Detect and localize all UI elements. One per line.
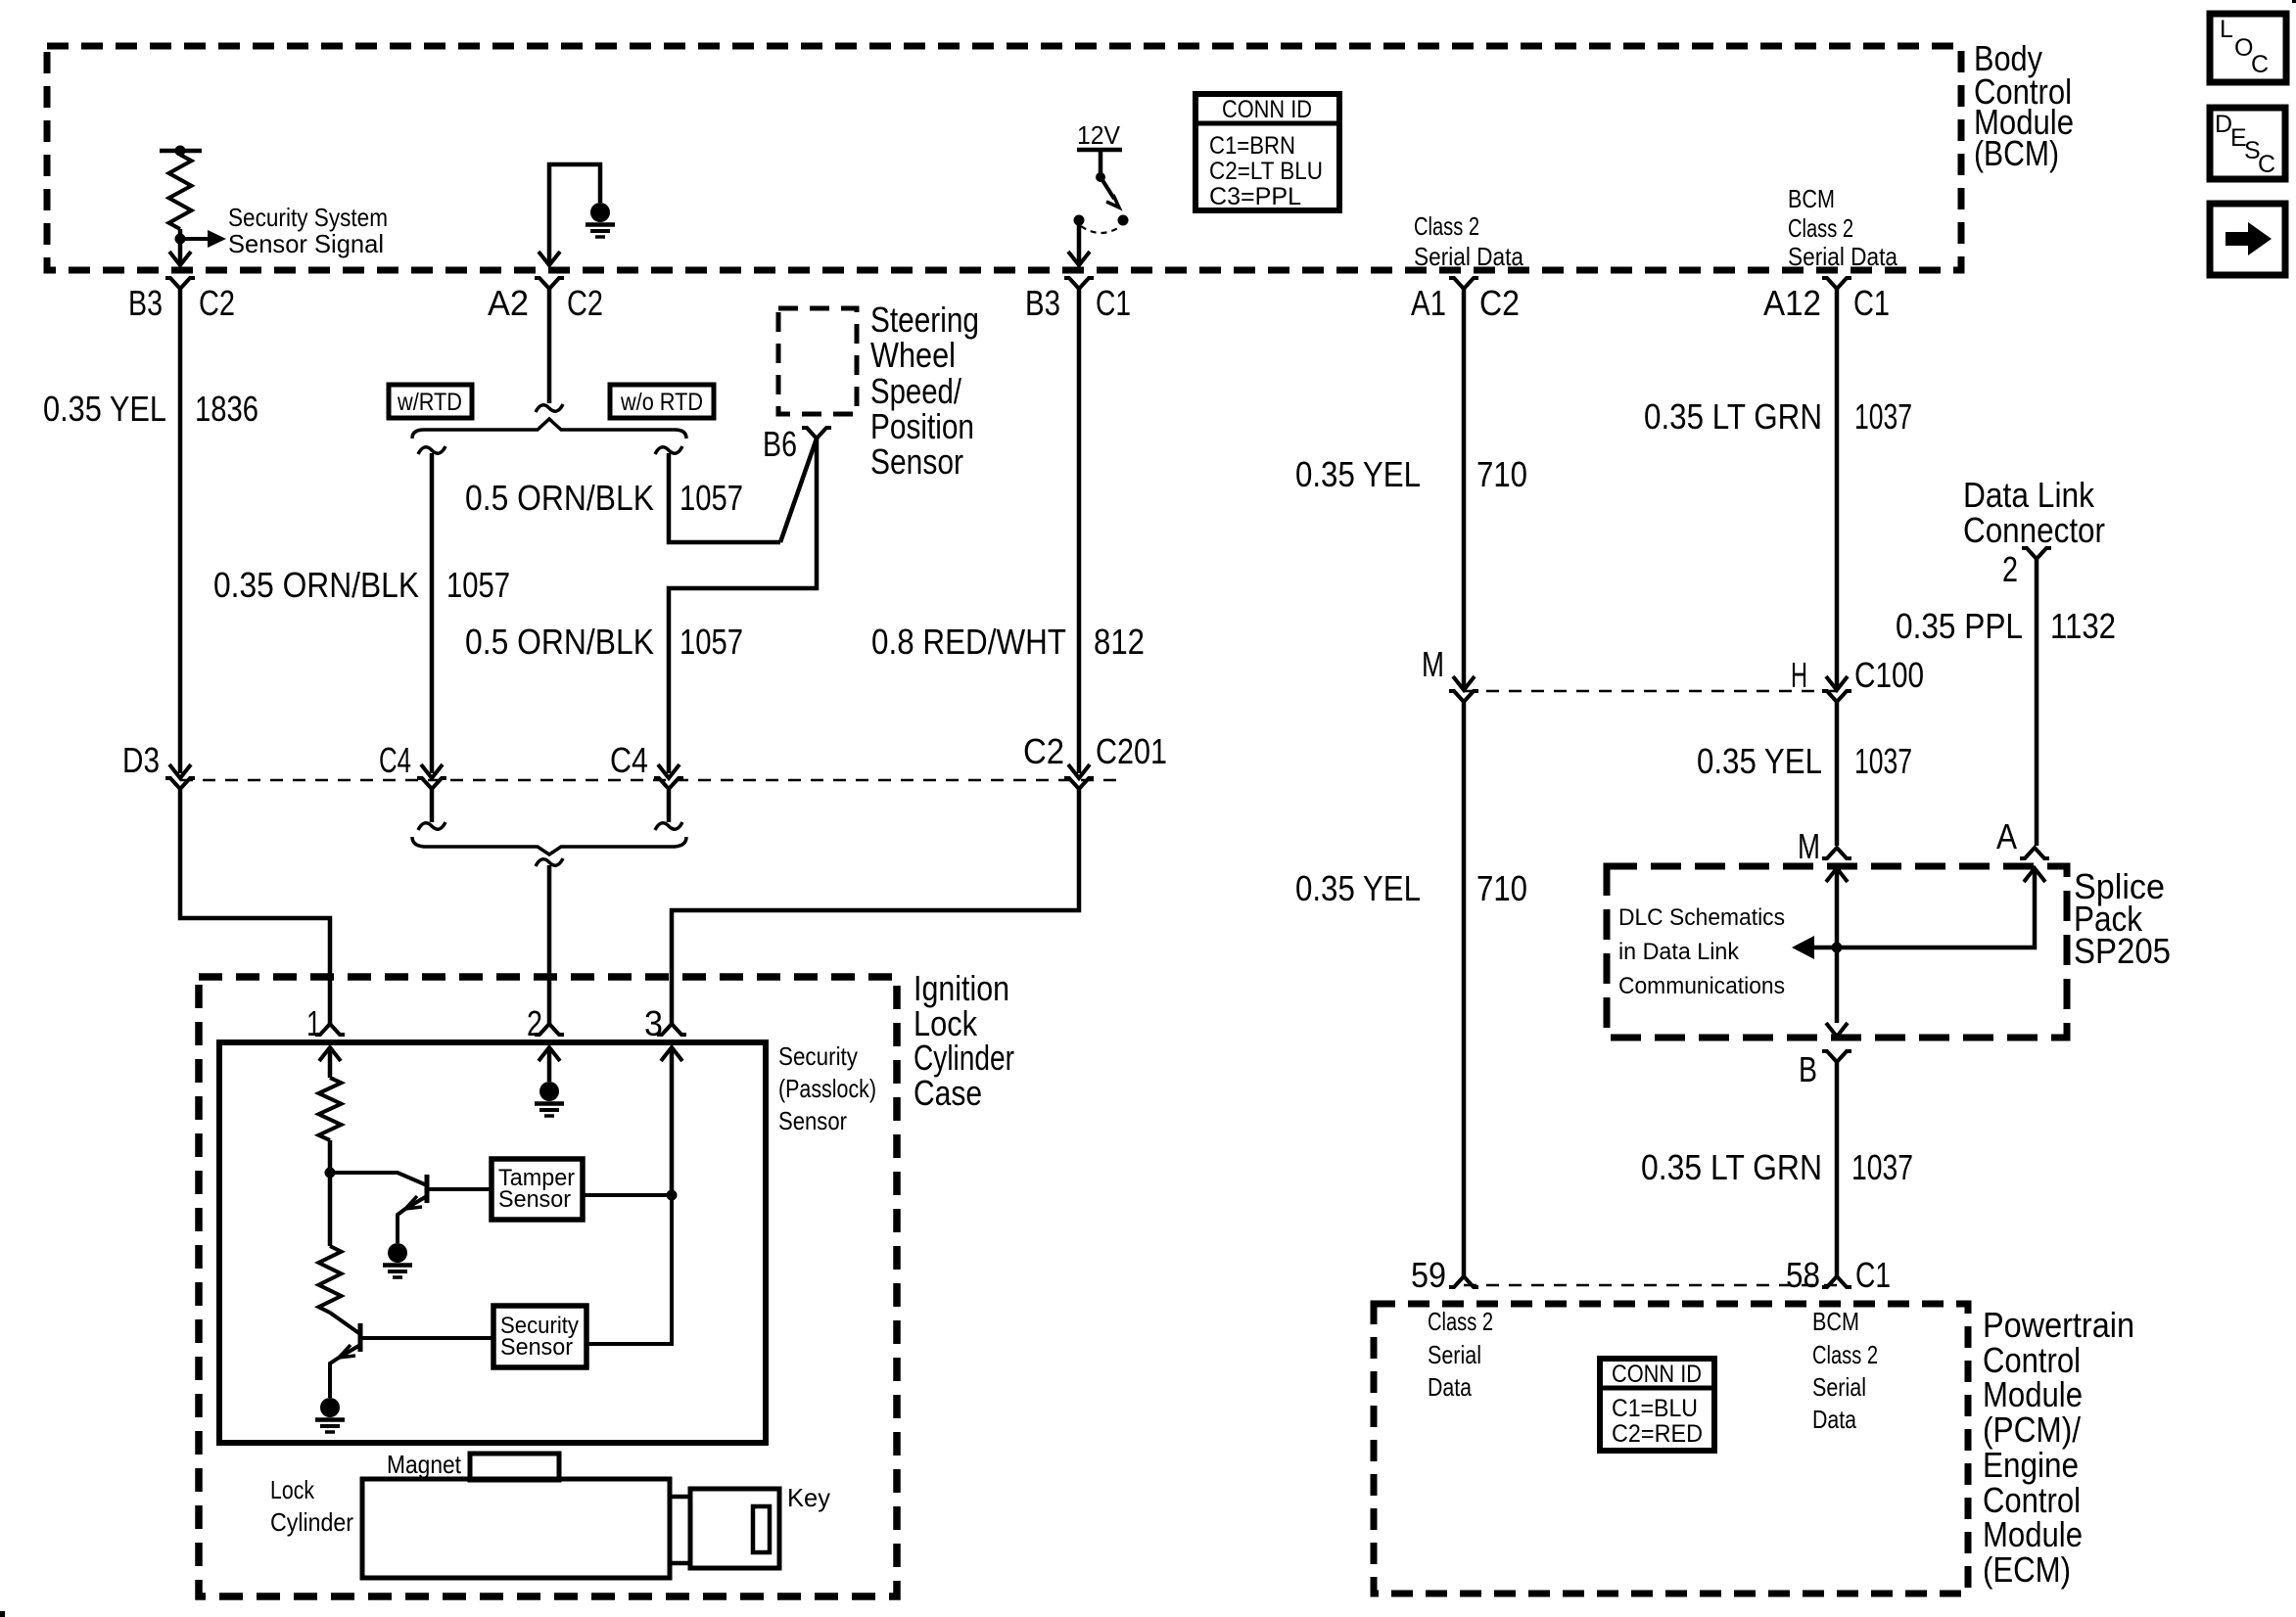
svg-text:Class 2: Class 2 (1788, 213, 1853, 243)
svg-text:L: L (2220, 16, 2233, 43)
label 0.35 YEL 710 lower (1295, 868, 1527, 908)
svg-text:Sensor: Sensor (778, 1106, 847, 1135)
label 0.35 YEL 710 upper (1295, 454, 1527, 494)
svg-text:BCM: BCM (1788, 184, 1835, 213)
label Powertrain Control Module (PCM)/Engine Control Module (ECM) (1983, 1305, 2134, 1590)
ground G-Q2 (320, 1398, 340, 1417)
svg-text:M: M (1422, 644, 1444, 684)
svg-text:A: A (1996, 816, 2017, 856)
label Lock Cylinder (270, 1475, 353, 1537)
wire tamper sensor to pin 3 (583, 1193, 672, 1197)
connector B3/C2 female (165, 278, 195, 289)
resistor R-BCM (security sensor signal pull-up) (160, 146, 202, 240)
node security sensor signal tap (175, 230, 227, 248)
table CONN ID (PCM connectors) (1600, 1359, 1714, 1451)
connector A2/C2 female (535, 278, 564, 289)
corner registration mark top-right (2292, 0, 2296, 3)
svg-text:0.35 PPL: 0.35 PPL (1896, 606, 2023, 646)
svg-text:0.35 YEL: 0.35 YEL (1295, 454, 1421, 494)
svg-text:Security: Security (778, 1041, 858, 1071)
label 58 | C1 (1786, 1255, 1891, 1295)
option box w/o RTD (610, 385, 714, 418)
svg-text:M: M (1798, 826, 1820, 866)
svg-text:in Data Link: in Data Link (1618, 939, 1740, 965)
ground G-BCM (590, 203, 610, 222)
svg-text:1057: 1057 (446, 565, 510, 605)
connector DLC pin 2 female (2022, 548, 2051, 559)
connector A splice female (2020, 848, 2049, 858)
svg-text:Serial: Serial (1428, 1340, 1481, 1369)
Body Control Module (BCM) dashed outline (47, 46, 1961, 270)
label BCM Class 2 Serial Data (A12) (1788, 184, 1898, 271)
wire A2 upper segment (547, 289, 552, 403)
svg-text:Engine: Engine (1983, 1445, 2079, 1485)
corner registration mark bottom-left (0, 1611, 5, 1617)
connector M splice female (1822, 848, 1851, 858)
svg-text:1037: 1037 (1854, 396, 1912, 437)
svg-text:C3=PPL: C3=PPL (1209, 183, 1301, 210)
svg-text:Speed/: Speed/ (870, 371, 961, 411)
label Steering Wheel Speed/Position Sensor (870, 300, 979, 482)
svg-text:D3: D3 (122, 740, 160, 780)
resistor R2 (319, 1246, 342, 1313)
wire 0.35 PPL 1132 (2035, 559, 2039, 846)
svg-text:C100: C100 (1854, 655, 1924, 695)
Ignition Lock Cylinder Case dashed outline (199, 977, 897, 1596)
wire A into splice (1792, 868, 2045, 959)
label 0.35 ORN/BLK 1057 (213, 565, 510, 605)
svg-text:Case: Case (914, 1073, 982, 1113)
svg-text:(Passlock): (Passlock) (778, 1074, 876, 1103)
wire pin 3 to security sensor (586, 1195, 672, 1344)
svg-text:Magnet: Magnet (387, 1450, 462, 1479)
brace split (A2 into w/RTD and w/o RTD) (412, 419, 686, 439)
svg-text:H: H (1791, 655, 1807, 695)
label Class 2 Serial Data (pin 59) (1428, 1307, 1493, 1402)
wire break w/o RTD branch top (655, 446, 682, 454)
svg-text:2: 2 (527, 1003, 542, 1043)
pin 3 arrow into sensor (661, 1047, 682, 1195)
svg-text:710: 710 (1476, 454, 1527, 494)
svg-text:Data: Data (1428, 1372, 1472, 1402)
table CONN ID (BCM connectors) (1195, 94, 1339, 210)
pin 3 connector female (657, 1024, 686, 1035)
connector line C100 (dashed) (1464, 690, 1837, 693)
Security (Passlock) Sensor box outline (219, 1042, 766, 1443)
transistor Q1 (tamper) (330, 1173, 492, 1243)
ground G-Q1 (388, 1243, 407, 1263)
legend box LOC (2210, 14, 2286, 82)
svg-text:C2: C2 (1479, 283, 1520, 323)
legend box forward arrow (2210, 204, 2285, 275)
switch SW-ignition (inside BCM) (1074, 150, 1129, 233)
svg-text:Module: Module (1983, 1374, 2083, 1414)
svg-text:Class 2: Class 2 (1812, 1340, 1878, 1369)
svg-text:Class 2: Class 2 (1428, 1307, 1493, 1336)
connector line C201/C4 (dashed) (180, 779, 1116, 782)
wire break above pin 2 (536, 858, 563, 866)
svg-text:3: 3 (644, 1003, 663, 1043)
svg-text:C2: C2 (1023, 731, 1064, 771)
svg-text:w/o RTD: w/o RTD (620, 389, 703, 416)
svg-text:Module: Module (1983, 1514, 2083, 1554)
svg-text:B: B (1799, 1049, 1817, 1089)
svg-text:C2=LT BLU: C2=LT BLU (1209, 158, 1323, 185)
svg-text:1132: 1132 (2050, 606, 2116, 646)
resistor R1 (319, 1078, 342, 1140)
label 0.35 PPL 1132 (1896, 606, 2116, 646)
connector D3 female (165, 778, 195, 789)
svg-text:0.35 ORN/BLK: 0.35 ORN/BLK (213, 565, 419, 605)
wire from B6 down (w/o RTD) (669, 439, 817, 773)
svg-text:710: 710 (1476, 868, 1527, 908)
wire to pin 2 (547, 865, 552, 1024)
wire break w/o RTD branch bottom (655, 822, 682, 830)
connector B3/C1 female (1064, 278, 1094, 289)
label 0.35 YEL 1037 (1697, 741, 1912, 781)
connector M/C100-left male (1453, 676, 1475, 690)
connector D3 male (169, 764, 191, 778)
label 0.35 LT GRN 1037 upper (1644, 396, 1912, 437)
pin 2 arrow into sensor (539, 1047, 560, 1082)
wire 0.35 YEL 710 upper (1462, 289, 1467, 687)
svg-text:Security System: Security System (228, 203, 388, 232)
svg-text:812: 812 (1094, 622, 1145, 662)
box Tamper Sensor (492, 1159, 583, 1220)
svg-text:Sensor: Sensor (500, 1334, 573, 1361)
svg-text:C1: C1 (1855, 1255, 1891, 1295)
connector C2/C201 female (1064, 778, 1094, 789)
svg-text:12V: 12V (1077, 120, 1121, 150)
wire R1 to node (328, 1140, 333, 1173)
label B3 | C2 pins (128, 283, 235, 323)
wire M through splice (1826, 868, 1848, 1037)
svg-text:Connector: Connector (1963, 510, 2105, 550)
svg-text:0.35 LT GRN: 0.35 LT GRN (1644, 396, 1822, 437)
wire 0.35 LT GRN 1037 lower (1835, 1062, 1840, 1276)
svg-text:B6: B6 (763, 424, 797, 464)
svg-text:Key: Key (787, 1483, 830, 1512)
connector C4 female (w/RTD) (417, 778, 446, 789)
connector C4 male (w/o RTD) (658, 764, 679, 778)
svg-text:Sensor: Sensor (498, 1186, 571, 1213)
svg-text:C1: C1 (1096, 283, 1131, 323)
svg-text:Sensor: Sensor (870, 441, 963, 482)
label Splice Pack SP205 (2074, 866, 2171, 971)
connector H female (1822, 691, 1851, 702)
label 0.8 RED/WHT 812 (871, 622, 1145, 662)
label A1 | C2 pins (1411, 283, 1520, 323)
svg-text:Cylinder: Cylinder (914, 1038, 1014, 1078)
svg-text:58: 58 (1786, 1255, 1820, 1295)
svg-text:Ignition: Ignition (914, 968, 1009, 1008)
Powertrain Control Module dashed outline (1374, 1304, 1968, 1594)
svg-text:Cylinder: Cylinder (270, 1507, 353, 1537)
pin 2 connector female (535, 1024, 564, 1035)
svg-text:Position: Position (870, 406, 974, 446)
svg-text:0.35 YEL: 0.35 YEL (1697, 741, 1822, 781)
svg-text:0.5 ORN/BLK: 0.5 ORN/BLK (465, 622, 654, 662)
label A2 | C2 pins (488, 283, 603, 323)
svg-text:C201: C201 (1096, 731, 1167, 771)
svg-text:Sensor Signal: Sensor Signal (228, 229, 384, 258)
wire 0.35 LT GRN 1037 upper (1835, 289, 1840, 687)
svg-text:0.5 ORN/BLK: 0.5 ORN/BLK (465, 478, 654, 518)
box magnet (470, 1454, 559, 1480)
label B3 | C1 pins (1025, 283, 1131, 323)
node tamper output junction (667, 1190, 678, 1201)
svg-text:Lock: Lock (270, 1475, 315, 1504)
connector B6 female (802, 428, 831, 439)
svg-text:Wheel: Wheel (870, 335, 956, 375)
svg-text:B3: B3 (128, 283, 163, 323)
wire 0.8 RED/WHT 812 segment (1077, 289, 1082, 773)
node splice junction SP205 (1832, 943, 1843, 953)
svg-text:C2: C2 (199, 283, 235, 323)
connector C4 female (w/o RTD) (654, 778, 683, 789)
svg-text:Data: Data (1812, 1405, 1856, 1434)
svg-text:C1: C1 (1853, 283, 1890, 323)
label H | C100 (1791, 655, 1924, 695)
transistor Q2 (security) (330, 1313, 493, 1398)
svg-text:SP205: SP205 (2074, 931, 2171, 971)
svg-text:59: 59 (1411, 1255, 1446, 1295)
wire below C4 (w/o RTD) (667, 789, 672, 822)
label Ignition Lock Cylinder Case (914, 968, 1014, 1113)
svg-text:0.35 YEL: 0.35 YEL (1295, 868, 1421, 908)
label DLC Schematics in Data Link Communications (1618, 904, 1785, 999)
svg-text:DLC Schematics: DLC Schematics (1618, 904, 1785, 931)
svg-text:C: C (2258, 151, 2275, 178)
label Class 2 Serial Data (A1) (1414, 211, 1523, 271)
box lock cylinder (362, 1479, 670, 1578)
key slot (753, 1506, 770, 1552)
option box w/RTD (389, 385, 472, 418)
connector B female (1822, 1051, 1851, 1062)
connector 59 female (1449, 1276, 1478, 1287)
svg-text:Serial: Serial (1812, 1372, 1866, 1402)
svg-text:1057: 1057 (679, 622, 743, 662)
svg-text:Powertrain: Powertrain (1983, 1305, 2134, 1345)
wire 0.35 YEL 1037 segment (1835, 702, 1840, 846)
label Body Control Module (BCM) (1974, 38, 2074, 173)
key head (690, 1489, 779, 1568)
svg-text:Communications: Communications (1618, 973, 1785, 999)
connector 58 female (1822, 1276, 1851, 1287)
svg-text:Serial Data: Serial Data (1414, 242, 1523, 271)
svg-text:C4: C4 (379, 740, 411, 780)
label 0.35 YEL 1836 (43, 389, 258, 429)
svg-text:(BCM): (BCM) (1974, 133, 2059, 173)
svg-text:B3: B3 (1025, 283, 1060, 323)
svg-text:A2: A2 (488, 283, 529, 323)
label C2 | C201 (1023, 731, 1167, 771)
wire below C4 (w/RTD) (430, 789, 435, 822)
svg-text:Data Link: Data Link (1963, 475, 2095, 515)
svg-text:1836: 1836 (195, 389, 258, 429)
svg-text:C2=RED: C2=RED (1612, 1420, 1703, 1448)
connector A1/C2 female (1449, 278, 1478, 289)
pin 1 arrow into sensor (319, 1047, 341, 1078)
connector line 59/58 (dashed) (1464, 1284, 1837, 1287)
wire 0.35 YEL 710 lower (1462, 702, 1467, 1276)
wire break A2 (536, 404, 563, 412)
svg-text:1057: 1057 (679, 478, 743, 518)
ground G-pin2 (539, 1082, 559, 1101)
svg-text:A1: A1 (1411, 283, 1446, 323)
box Security Sensor (493, 1306, 586, 1367)
svg-text:1037: 1037 (1854, 741, 1912, 781)
wire C201 to pin 3 (672, 789, 1079, 1024)
legend box DESC (2210, 108, 2285, 179)
power 12V feed (1077, 120, 1122, 150)
connector M female (1449, 691, 1478, 702)
svg-text:Steering: Steering (870, 300, 979, 340)
Splice Pack SP205 dashed outline (1607, 866, 2067, 1038)
svg-text:1: 1 (306, 1003, 321, 1043)
wire B3 inside BCM (169, 239, 191, 265)
svg-text:A12: A12 (1763, 283, 1821, 323)
wire B3/C1 inside BCM (1068, 220, 1090, 265)
wire 0.35 ORN/BLK 1057 (w/RTD branch) (430, 453, 435, 773)
svg-text:(PCM)/: (PCM)/ (1983, 1409, 2081, 1450)
svg-text:CONN ID: CONN ID (1612, 1361, 1702, 1388)
svg-text:C4: C4 (610, 740, 648, 780)
wire D3 to pin 1 (180, 789, 330, 1024)
svg-text:(ECM): (ECM) (1983, 1549, 2071, 1590)
connector A12/C1 female (1822, 278, 1851, 289)
label Data Link Connector (1963, 475, 2105, 550)
svg-text:1037: 1037 (1851, 1147, 1913, 1187)
label 0.5 ORN/BLK 1057 lower (465, 622, 743, 662)
svg-text:C: C (2251, 51, 2269, 78)
male connector A2 (BCM side) (539, 252, 560, 265)
svg-text:Serial Data: Serial Data (1788, 242, 1898, 271)
connector H/C100 male (1826, 676, 1848, 690)
wire A2 inside BCM (549, 164, 600, 265)
label Security System Sensor Signal (228, 203, 388, 258)
svg-text:2: 2 (2002, 549, 2018, 589)
Steering Wheel Speed/Position Sensor dashed outline (778, 308, 857, 414)
connector C2/C201 male (1068, 764, 1090, 778)
svg-text:C1=BLU: C1=BLU (1612, 1395, 1698, 1422)
svg-text:0.8 RED/WHT: 0.8 RED/WHT (871, 622, 1066, 662)
brace merge (branches into pin 2) (412, 837, 686, 855)
svg-text:0.35 YEL: 0.35 YEL (43, 389, 166, 429)
svg-text:C1=BRN: C1=BRN (1209, 132, 1295, 160)
svg-text:C2: C2 (567, 283, 603, 323)
wire R1-R2 link (328, 1173, 333, 1246)
wire break w/RTD branch bottom (418, 822, 445, 830)
wire break w/RTD branch top (418, 446, 445, 454)
label A12 | C1 pins (1763, 283, 1890, 323)
wire 0.35 YEL 1836 segment (178, 289, 183, 773)
pin 1 connector female (315, 1024, 345, 1035)
svg-text:w/RTD: w/RTD (397, 389, 462, 416)
label Security (Passlock) Sensor (778, 1041, 876, 1135)
node base junction (tamper) (325, 1168, 336, 1178)
svg-text:BCM: BCM (1812, 1307, 1859, 1336)
wire 0.5 ORN/BLK 1057 upper (w/o RTD branch) (669, 453, 780, 542)
label BCM Class 2 Serial Data (pin 58) (1812, 1307, 1878, 1434)
svg-text:0.35 LT GRN: 0.35 LT GRN (1641, 1147, 1822, 1187)
svg-text:Class 2: Class 2 (1414, 211, 1479, 241)
svg-text:CONN ID: CONN ID (1222, 96, 1312, 123)
label 0.35 LT GRN 1037 lower (1641, 1147, 1913, 1187)
label 0.5 ORN/BLK 1057 upper (465, 478, 743, 518)
connector C4 male (w/RTD) (421, 764, 443, 778)
key shank (670, 1497, 690, 1563)
wire diagonal to B6 (780, 439, 817, 542)
